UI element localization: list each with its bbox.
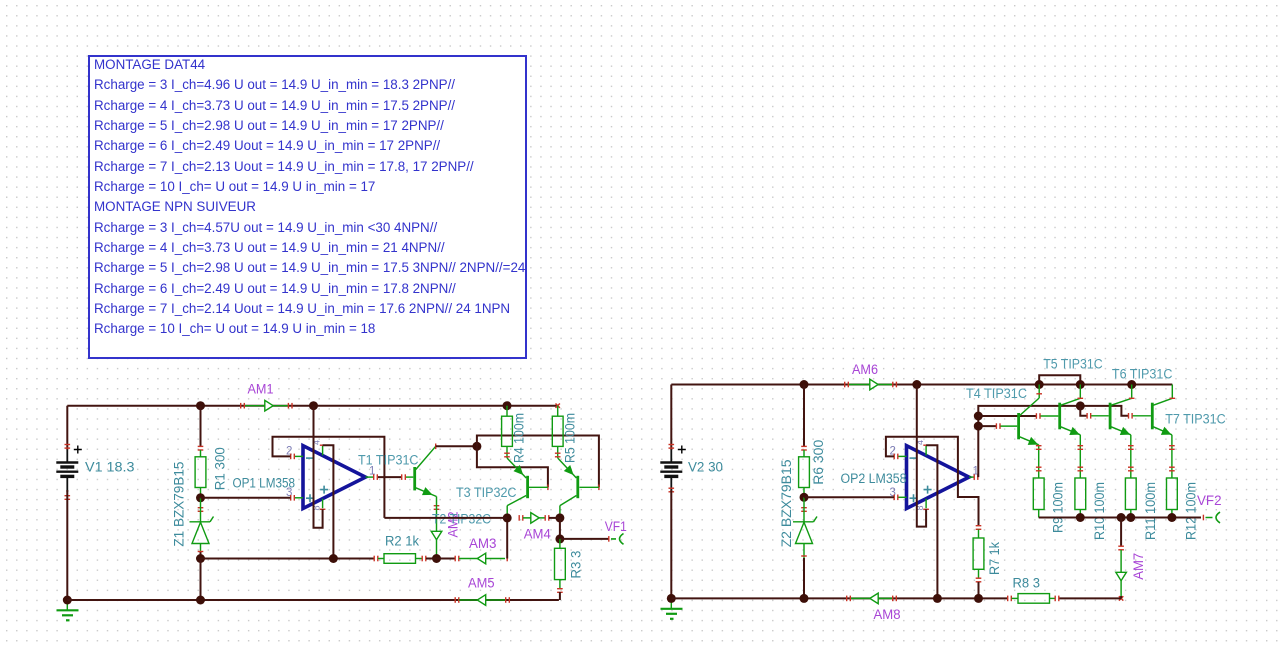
wire: reference line Z2 to pin3 xyxy=(804,496,894,498)
transistor T6 emitter arrow xyxy=(1121,428,1130,435)
wire: reference line Z1 to pin3 xyxy=(201,497,291,499)
ammeter AM1 wire xyxy=(245,405,288,407)
junction: rail T5 collector xyxy=(1076,380,1085,389)
pin cross R5 top xyxy=(556,404,560,408)
ammeter AM7 arrow xyxy=(1116,572,1127,580)
pin cross R4 bottom xyxy=(504,453,510,454)
wire: AM3 to T3 collector node xyxy=(506,518,508,559)
wire: OP1 output to T1 base xyxy=(378,476,401,478)
transistor T1 collector line xyxy=(416,446,436,469)
svg-text:R12 100m: R12 100m xyxy=(1184,482,1200,540)
pin cross OP2 output xyxy=(974,474,975,480)
junction: rail/R4 node xyxy=(503,401,512,410)
junction: rail/OP2-V+ riser xyxy=(912,380,921,389)
transistor T3 TIP32C emitter line xyxy=(507,458,526,478)
wire: OP1 feedback pin2 path xyxy=(273,437,385,518)
svg-text:V2 30: V2 30 xyxy=(688,460,723,476)
pin cross AM6 right xyxy=(892,382,893,388)
wire: VF1 probe wire xyxy=(560,538,609,540)
transistor T2 bar xyxy=(576,476,579,498)
pin cross VF1 xyxy=(608,536,609,542)
transistor T2 emitter arrow xyxy=(565,466,573,474)
pin cross OP2 pin3 xyxy=(894,495,895,501)
wire: T3 base stub xyxy=(529,486,548,488)
wire: OP1 output stub xyxy=(366,476,374,478)
junction: Z2 at ground rail xyxy=(800,594,809,603)
pin cross OP1 pin4 xyxy=(320,445,326,446)
pin cross T4 collector xyxy=(1036,393,1042,394)
svg-text:R8 3: R8 3 xyxy=(1013,576,1041,592)
transistor Q T1 TIP31C bar xyxy=(413,467,416,490)
pin cross T6 base xyxy=(1086,413,1087,419)
ammeter AM8 arrow xyxy=(870,593,878,604)
wire: output node drop xyxy=(559,518,561,539)
svg-text:V1 18.3: V1 18.3 xyxy=(85,460,135,476)
ammeter AM7 wire xyxy=(1120,550,1122,596)
wire: OP1 pin3 stub xyxy=(295,497,303,499)
wire: T6 emitter drop xyxy=(1130,435,1132,478)
junction: base bus T5 tap xyxy=(974,412,983,421)
battery V2 xyxy=(660,461,682,463)
wire: ground rail (bottom rail left circuit) xyxy=(67,599,559,601)
wire: base bus upper loop xyxy=(477,436,599,488)
junction: R6/Z2/pin3 node xyxy=(800,493,809,502)
resistor R6 xyxy=(803,450,805,457)
resistor R3 xyxy=(559,539,561,548)
wire: V2 positive rail (top rail right circuit) xyxy=(671,384,1172,386)
svg-text:T4 TIP31C: T4 TIP31C xyxy=(966,386,1027,402)
transistor T6 emitter line xyxy=(1111,427,1131,435)
pin cross T1 base xyxy=(401,474,402,480)
junction: battery/ground node xyxy=(63,596,72,605)
wire: base branch to T3 xyxy=(477,446,548,487)
zener diode Z2 xyxy=(793,521,814,523)
pin cross OP1 pin3 xyxy=(290,495,291,501)
junction: R11 bus node xyxy=(1126,513,1135,522)
svg-text:R9 100m: R9 100m xyxy=(1051,482,1067,533)
resistor R9 xyxy=(1033,478,1044,510)
svg-text:VF2: VF2 xyxy=(1197,493,1222,509)
wire: T5 base stub xyxy=(1041,415,1059,417)
wire: OP2 feedback path xyxy=(886,437,979,526)
wire: AM7 feed xyxy=(1120,518,1122,547)
junction: T2 collector output node xyxy=(555,513,564,522)
voltage probe VF2 tip xyxy=(1206,512,1221,523)
svg-text:AM1: AM1 xyxy=(248,382,274,398)
junction: R1/Z1/pin3 node xyxy=(196,493,205,502)
wire: T4 emitter drop xyxy=(1038,445,1040,478)
op-amp U2 OP2 LM358 xyxy=(907,446,970,509)
pin cross OP1 output xyxy=(373,474,374,480)
wire: Z1 anode stub xyxy=(200,544,202,553)
transistor T4 bar xyxy=(1017,413,1020,439)
svg-text:VF1: VF1 xyxy=(605,519,627,535)
pin cross T5 collector xyxy=(1078,398,1084,399)
pin cross R7 bottom xyxy=(976,578,982,579)
wire: zener ground line xyxy=(201,558,375,560)
wire: rail end to R5 xyxy=(557,406,559,417)
pin cross AM5 left xyxy=(505,597,506,603)
pin cross T4 base xyxy=(996,423,997,429)
resistor R2 1k xyxy=(378,558,384,560)
transistor T1 emitter line xyxy=(416,488,437,497)
junction: pin4 at ground rail xyxy=(933,594,942,603)
transistor T6 bar xyxy=(1109,403,1112,430)
pin cross R1 top xyxy=(198,446,204,447)
transistor T4 collector line xyxy=(1020,398,1039,416)
resistor R10 xyxy=(1075,478,1086,510)
junction: rail/R6 node xyxy=(800,380,809,389)
pin cross AM7 bottom xyxy=(1119,596,1123,600)
junction: base bus T4 tap xyxy=(974,422,983,431)
ammeter AM6 arrow xyxy=(870,379,878,390)
pin cross T2 base xyxy=(598,485,599,491)
wire: T7 base stub xyxy=(1133,415,1151,417)
wire: T1 collector to PNP base node xyxy=(436,445,477,447)
pin cross OP2 pin2 xyxy=(894,454,895,460)
svg-text:T6 TIP31C: T6 TIP31C xyxy=(1112,367,1173,383)
transistor T5 emitter line xyxy=(1061,427,1081,435)
svg-text:T5 TIP31C: T5 TIP31C xyxy=(1043,356,1103,372)
pin cross OP1 pin8 xyxy=(320,509,326,510)
transistor T2 TIP32C emitter line xyxy=(558,458,577,478)
pin cross AM4 right xyxy=(545,515,546,521)
transistor T5 collector line xyxy=(1061,398,1081,405)
svg-text:T7 TIP31C: T7 TIP31C xyxy=(1165,411,1226,427)
wire: output line xyxy=(384,517,507,519)
resistor R7 1k xyxy=(978,530,980,539)
wire: R3 to ground rail xyxy=(559,592,561,600)
svg-text:R3 3: R3 3 xyxy=(569,550,585,578)
wire: Z1 cathode stub xyxy=(200,498,202,522)
wire: T5 base wire xyxy=(978,415,1036,417)
wire: node to AM3 xyxy=(437,558,456,560)
wire: V1 positive rail (top rail left circuit) xyxy=(67,405,557,407)
pin cross V1 - xyxy=(65,495,71,496)
pin cross AM8 right xyxy=(846,596,847,602)
pin cross AM1 left xyxy=(240,403,241,409)
junction: base bus T6 tap xyxy=(1076,401,1085,410)
pin cross T6 emitter a xyxy=(1128,445,1134,446)
wire: T4 base wire xyxy=(978,425,996,427)
pin cross T7 base xyxy=(1128,413,1129,419)
pin cross AM1 right xyxy=(288,403,289,409)
junction: R2/AM2/AM3 node xyxy=(432,554,441,563)
zener diode Z1 xyxy=(190,521,211,523)
pin cross AM5 right xyxy=(455,597,456,603)
junction: rail T4 collector xyxy=(1035,380,1044,389)
pin cross V2 + xyxy=(669,444,675,445)
junction: rail/R1 node xyxy=(196,401,205,410)
svg-text:Z1 BZX79B15: Z1 BZX79B15 xyxy=(172,462,188,547)
wire: ground rail right circuit xyxy=(671,597,1007,599)
pin cross T6 emitter b xyxy=(1128,467,1134,468)
pin cross R3 bottom xyxy=(557,588,563,589)
svg-text:AM8: AM8 xyxy=(874,607,901,623)
wire: OP2 pin2 stub xyxy=(899,455,907,457)
pin cross T6 collector xyxy=(1129,398,1135,399)
transistor T6 collector line xyxy=(1111,398,1132,405)
wire: OP2 output stub xyxy=(969,476,974,478)
battery V1 xyxy=(56,461,78,463)
wire: Z2 anode stub xyxy=(803,544,805,559)
ammeter AM2 arrow xyxy=(431,531,442,539)
junction: Z1/ground-line node xyxy=(196,554,205,563)
pin cross V2 - xyxy=(669,488,675,489)
svg-text:R10 100m: R10 100m xyxy=(1092,482,1108,540)
transistor T7 collector line xyxy=(1153,398,1172,405)
ammeter AM3 wire xyxy=(459,558,505,560)
pin cross T7 collector xyxy=(1170,398,1176,399)
pin cross AM3 left corner xyxy=(507,556,508,562)
info text box MONTAGE DAT44 xyxy=(88,55,527,359)
svg-text:R7 1k: R7 1k xyxy=(987,541,1003,575)
svg-text:AM7: AM7 xyxy=(1131,553,1147,580)
transistor T5 bar xyxy=(1058,403,1061,430)
pin cross R7 top xyxy=(976,525,982,526)
ammeter AM1 arrow xyxy=(265,400,273,411)
pin cross V1 + xyxy=(65,444,71,445)
transistor T7 emitter line xyxy=(1153,427,1172,435)
junction: R7 at ground rail xyxy=(974,594,983,603)
transistor T4 emitter line xyxy=(1020,437,1039,445)
pin cross AM3 right xyxy=(455,556,456,562)
ammeter AM6 wire xyxy=(849,384,892,386)
ammeter AM5 wire xyxy=(459,599,506,601)
op-amp U1 OP1 LM358 xyxy=(303,446,366,509)
transistor T3 emitter arrow xyxy=(514,466,522,474)
wire: T4 base stub xyxy=(1001,425,1018,427)
svg-text:OP2 LM358: OP2 LM358 xyxy=(841,471,907,487)
transistor T7 emitter arrow xyxy=(1162,428,1171,435)
svg-text:AM4: AM4 xyxy=(524,526,551,542)
junction: R10 bus node xyxy=(1076,513,1085,522)
pin cross AM8 left xyxy=(892,596,893,602)
svg-text:R1 300: R1 300 xyxy=(213,447,229,490)
junction: rail T6 collector xyxy=(1127,380,1136,389)
wire: AM4 to VF1 node xyxy=(549,517,560,519)
pin cross T4 emitter a xyxy=(1036,445,1042,446)
pin cross AM4 left xyxy=(519,515,520,521)
junction: Z1 column at ground rail xyxy=(196,596,205,605)
wire: V1 negative to ground rail xyxy=(66,490,68,600)
wire: OP1 pin2 stub xyxy=(295,455,303,457)
wire: output riser and base bus xyxy=(978,406,1128,477)
svg-text:R6 300: R6 300 xyxy=(811,440,827,485)
pin cross R6 top xyxy=(801,446,807,447)
pin cross Z2 anode xyxy=(801,555,807,556)
wire: T7 emitter drop xyxy=(1171,435,1173,478)
svg-text:T2 TIP32C: T2 TIP32C xyxy=(432,512,491,528)
wire: R6 top feed xyxy=(803,385,805,448)
svg-text:Z2 BZX79B15: Z2 BZX79B15 xyxy=(779,459,795,547)
wire: Z1 to ground rail xyxy=(200,559,202,601)
resistor R4 xyxy=(506,406,508,417)
wire: OP2 pin4 to ground rail xyxy=(926,445,937,598)
wire: OP1 pin8 to V+ rail xyxy=(314,406,323,528)
junction: VF1/R3 node xyxy=(555,534,564,543)
transistor T2 collector line xyxy=(560,496,577,506)
junction: T1 collector node xyxy=(472,442,481,451)
wire: T5 emitter drop xyxy=(1079,435,1081,478)
wire: R7 to ground rail xyxy=(978,582,980,598)
resistor R11 xyxy=(1125,478,1136,510)
wire: V1 top riser xyxy=(66,406,68,450)
ammeter AM3 arrow xyxy=(477,553,485,564)
wire: T2 base stub xyxy=(579,486,599,488)
junction: rail/V+ riser node xyxy=(309,401,318,410)
ammeter AM4 arrow xyxy=(531,513,539,524)
wire: OP2 pin3 stub xyxy=(899,496,907,498)
wire: T6 base stub xyxy=(1091,415,1109,417)
ammeter AM2 wire xyxy=(436,497,438,559)
wire: V2 negative to ground rail xyxy=(670,490,672,598)
wire: OP1 pin4 to ground line xyxy=(323,445,334,558)
wire: R2 right to node xyxy=(426,558,437,560)
wire: OP2 pin8 to V+ rail xyxy=(917,385,926,527)
svg-text:AM5: AM5 xyxy=(468,575,495,591)
pin cross T5 emitter b xyxy=(1078,467,1084,468)
wire: T6 base wire xyxy=(1080,406,1086,416)
pin cross OP2 pin8 xyxy=(923,509,929,510)
ammeter AM4 wire xyxy=(523,517,545,519)
resistor R8 3 xyxy=(1012,597,1019,599)
pin cross R8 right xyxy=(1055,596,1056,602)
svg-text:AM3: AM3 xyxy=(469,536,497,552)
pin cross AM6 left xyxy=(844,382,845,388)
resistor R12 xyxy=(1167,478,1178,510)
pin cross T5 base xyxy=(1036,413,1037,419)
wire: Z2 cathode stub xyxy=(803,497,805,522)
svg-text:R11 100m: R11 100m xyxy=(1143,482,1159,540)
transistor T3 collector line xyxy=(507,496,526,506)
pin cross T4 emitter b xyxy=(1036,467,1042,468)
wire: T1 base stub xyxy=(406,476,413,478)
pin cross R2 left xyxy=(374,556,375,562)
ground symbol left circuit xyxy=(66,600,68,610)
pin cross R5 bottom xyxy=(555,453,561,454)
ammeter AM5 arrow xyxy=(477,595,485,606)
ground symbol right circuit xyxy=(670,598,672,608)
transistor T3 bar xyxy=(526,476,529,498)
pin cross OP1 pin2 xyxy=(290,454,291,460)
voltage probe VF1 tip xyxy=(611,534,624,545)
wire: V2 top riser xyxy=(670,385,672,451)
pin cross Z2 cathode xyxy=(801,507,807,508)
pin cross T3 base xyxy=(547,485,548,491)
transistor T4 emitter arrow xyxy=(1028,438,1037,445)
wire: rail bump T4-T5 collectors xyxy=(1039,375,1080,384)
resistor R1 xyxy=(200,450,202,457)
wire: emitter bus xyxy=(1039,517,1201,519)
resistor R5 xyxy=(552,416,563,446)
svg-text:R5 100m: R5 100m xyxy=(563,413,579,463)
pin cross T7 emitter b xyxy=(1169,467,1175,468)
transistor T1 emitter arrow xyxy=(423,488,432,495)
junction: R12 bus node xyxy=(1167,513,1176,522)
pin cross OP2 pin4 xyxy=(923,445,929,446)
wire: R1 top feed xyxy=(200,406,202,447)
pin cross T5 emitter a xyxy=(1078,445,1084,446)
pin cross Z1 cathode xyxy=(198,507,204,508)
svg-text:T3 TIP32C: T3 TIP32C xyxy=(456,485,517,501)
ammeter AM8 wire xyxy=(851,597,892,599)
pin cross AM7 top xyxy=(1118,546,1124,547)
pin cross Z1 anode xyxy=(198,551,204,552)
svg-text:AM6: AM6 xyxy=(852,362,878,378)
transistor T7 bar xyxy=(1151,403,1154,430)
pin cross R2 right xyxy=(422,556,423,562)
pin cross T1 collector xyxy=(435,444,436,450)
svg-text:R2 1k: R2 1k xyxy=(385,534,420,550)
pin cross VF2 xyxy=(1203,515,1204,521)
pin cross R8 left xyxy=(1007,596,1008,602)
junction: pin4/ground-line node xyxy=(329,554,338,563)
junction: V2/ground node xyxy=(667,594,676,603)
wire: AM7 to R8 xyxy=(1120,596,1122,598)
junction: T3 collector output node xyxy=(503,513,512,522)
pin cross T1 emitter xyxy=(434,505,440,506)
pin cross T7 emitter a xyxy=(1169,445,1175,446)
svg-text:R4 100m: R4 100m xyxy=(512,413,528,463)
junction: AM7 bus node xyxy=(1117,513,1126,522)
svg-text:T1 TIP31C: T1 TIP31C xyxy=(358,452,419,468)
transistor T5 emitter arrow xyxy=(1070,428,1079,435)
